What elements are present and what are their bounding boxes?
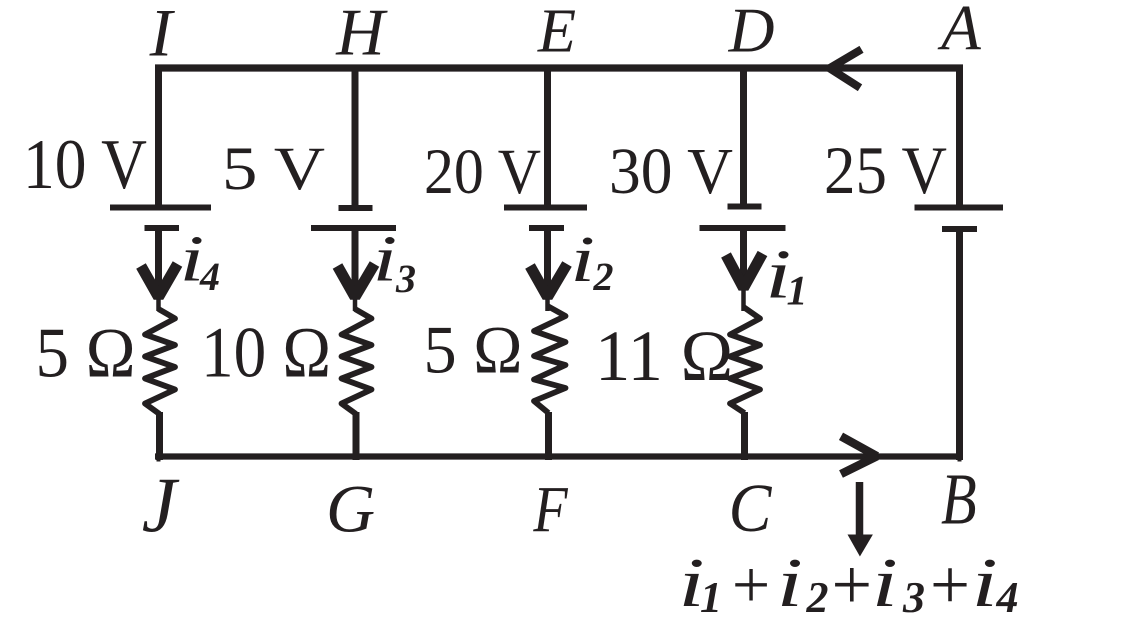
svg-text:E: E — [537, 0, 576, 65]
svg-text:5 Ω: 5 Ω — [424, 313, 523, 388]
svg-text:F: F — [532, 473, 568, 546]
svg-text:i: i — [373, 222, 398, 295]
svg-text:i: i — [678, 544, 704, 618]
svg-text:G: G — [326, 471, 375, 547]
svg-text:i: i — [972, 544, 998, 618]
svg-text:A: A — [937, 0, 981, 64]
svg-text:B: B — [941, 459, 977, 540]
svg-text:10 V: 10 V — [23, 126, 147, 204]
svg-text:H: H — [335, 0, 388, 69]
svg-text:J: J — [142, 461, 180, 548]
svg-text:i: i — [765, 235, 791, 312]
svg-text:5 Ω: 5 Ω — [36, 315, 136, 393]
svg-text:I: I — [149, 0, 176, 71]
svg-text:11 Ω: 11 Ω — [595, 316, 733, 396]
svg-text:i: i — [872, 544, 898, 618]
svg-text:i: i — [570, 222, 595, 295]
svg-text:30 V: 30 V — [609, 135, 733, 208]
svg-text:i: i — [777, 544, 803, 618]
svg-text:+: + — [930, 546, 970, 618]
svg-text:D: D — [728, 0, 775, 65]
svg-text:+: + — [831, 545, 872, 618]
svg-text:C: C — [729, 471, 773, 547]
svg-text:20 V: 20 V — [424, 136, 541, 207]
svg-text:25 V: 25 V — [824, 133, 947, 208]
svg-text:10 Ω: 10 Ω — [201, 313, 331, 393]
svg-text:5 V: 5 V — [222, 135, 325, 203]
svg-text:+: + — [732, 547, 770, 618]
